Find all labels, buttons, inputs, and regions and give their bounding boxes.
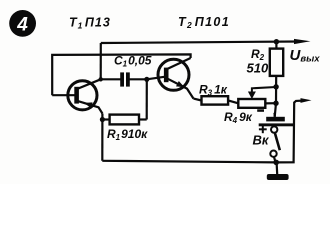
node R4 right junction <box>273 101 278 106</box>
svg-text:С10,05: С10,05 <box>114 54 152 69</box>
resistor R2 <box>270 42 283 87</box>
wire top rail <box>101 42 298 44</box>
label R4 9k <box>224 110 253 125</box>
label plus <box>259 125 267 133</box>
label minus <box>257 109 264 112</box>
wire bottom rail <box>102 161 276 163</box>
label R1 910k <box>107 127 148 142</box>
node R2 top rail junction <box>274 39 279 44</box>
node bottom rail junction <box>273 160 279 166</box>
label Vk <box>253 133 270 148</box>
wire feedback loop T1 base to T2 collector <box>52 54 190 95</box>
potentiometer R4 <box>238 87 276 108</box>
output arrow Uout top <box>294 39 311 44</box>
transistor T2 <box>147 58 194 99</box>
wire R2 bottom to battery <box>275 87 276 117</box>
svg-text:R31к: R31к <box>199 83 228 98</box>
resistor R3 <box>202 96 239 104</box>
label Uout <box>290 47 321 65</box>
label R2 <box>251 47 265 62</box>
ground terminal bar <box>267 162 289 180</box>
figure number badge 4 <box>9 10 36 37</box>
output arrow bottom <box>301 98 312 103</box>
svg-text:Т1П13: Т1П13 <box>69 16 111 31</box>
svg-text:R1910к: R1910к <box>107 127 148 142</box>
wire T1 emitter drop to bottom rail <box>101 114 103 161</box>
transistor T1 <box>52 79 102 113</box>
label C1 0,05 <box>114 54 152 69</box>
wire bottom rail right segment <box>276 101 303 163</box>
wire T2 emitter to R3 <box>194 99 202 101</box>
wire riser from top rail to T1 collector node <box>100 43 102 79</box>
node T1 collector junction <box>99 77 103 81</box>
label T2 P101 <box>178 15 230 30</box>
svg-text:510: 510 <box>247 61 269 76</box>
node R2 bottom / wiper junction <box>273 84 278 89</box>
switch Vk <box>270 126 280 162</box>
label T1 P13 <box>69 16 111 31</box>
resistor R1 <box>102 79 146 124</box>
svg-text:Вк: Вк <box>253 133 270 148</box>
label 510 <box>247 61 269 76</box>
node capacitor/T2-base/R1 junction <box>144 77 149 82</box>
svg-text:4: 4 <box>16 15 28 36</box>
capacitor C1 <box>101 72 147 86</box>
node R1/emitter junction <box>100 117 105 122</box>
label R3 1k <box>199 83 228 98</box>
battery <box>259 113 294 127</box>
svg-text:Т2П101: Т2П101 <box>178 15 230 30</box>
svg-text:R49к: R49к <box>224 110 253 125</box>
